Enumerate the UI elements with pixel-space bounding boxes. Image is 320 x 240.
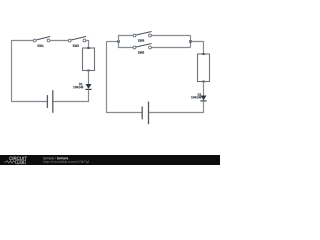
- wire top branch segment 1: [118, 35, 135, 37]
- wire left circuit left vertical: [11, 41, 13, 102]
- wire right junction stub with corner down to resistor: [191, 42, 204, 55]
- switch SW3: [68, 37, 86, 48]
- wire bottom branch segment 2: [150, 47, 191, 49]
- wire diode D2 to bottom rail: [203, 101, 205, 113]
- author text tamara / tamara: [43, 157, 68, 160]
- wire right junction vertical: [190, 36, 192, 48]
- wire left circuit top rail segment 1: [11, 40, 35, 42]
- node right junction: [189, 40, 192, 43]
- wire right circuit bottom rail right segment: [149, 112, 205, 114]
- wire left circuit top rail segment 3 with corner down to resistor: [84, 41, 88, 49]
- CircuitLab logo: [4, 157, 27, 164]
- switch SW4: [133, 32, 152, 42]
- wire left circuit bottom rail right segment: [53, 101, 89, 103]
- battery V1: [47, 90, 52, 113]
- wire stub to left parallel junction: [107, 41, 119, 43]
- wire left circuit top rail segment 2: [49, 40, 70, 42]
- wire right circuit left vertical: [106, 42, 108, 113]
- wire bottom branch segment 1: [118, 47, 135, 49]
- diode D1: [73, 83, 91, 89]
- wire left junction vertical: [118, 36, 120, 48]
- battery V2: [142, 102, 148, 125]
- wire resistor R1 to diode D1: [88, 71, 90, 85]
- wire diode D1 to bottom rail: [88, 89, 90, 102]
- switch SW5: [133, 44, 152, 54]
- wire right circuit bottom rail left segment: [106, 112, 142, 114]
- resistor R1: [83, 47, 95, 72]
- wire left circuit bottom rail left segment: [11, 101, 47, 103]
- wire top branch segment 2: [150, 35, 191, 37]
- diode D2: [191, 93, 206, 101]
- switch SW1: [33, 37, 50, 48]
- wire resistor R2 to diode D2: [203, 82, 205, 96]
- url text: [43, 160, 89, 163]
- node left junction: [117, 40, 120, 43]
- watermark bar: [0, 155, 220, 165]
- resistor R2: [198, 53, 210, 83]
